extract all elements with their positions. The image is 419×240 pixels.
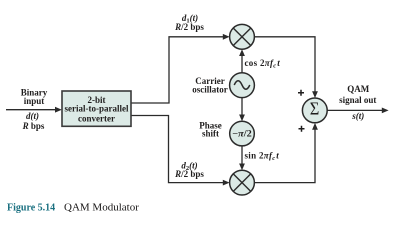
- svg-text:Figure 5.14QAM Modulator: Figure 5.14QAM Modulator: [7, 201, 139, 213]
- multiplier M2: [230, 170, 255, 195]
- svg-text:R bps: R bps: [22, 121, 45, 131]
- svg-text:input: input: [24, 96, 45, 106]
- svg-text:signal out: signal out: [339, 95, 376, 105]
- wire: QAM output arrow: [327, 108, 389, 114]
- svg-text:R/2 bps: R/2 bps: [174, 22, 204, 32]
- wire: phase shifter to multiplier M2 (sin branch): [239, 146, 245, 170]
- svg-text:sin 2πfct: sin 2πfct: [245, 150, 280, 162]
- wire: oscillator to M1 (cos branch): [239, 49, 245, 73]
- wire: Q-channel converter to multiplier M2: [132, 116, 230, 186]
- svg-text:shift: shift: [202, 128, 219, 138]
- svg-text:converter: converter: [78, 113, 115, 123]
- wire: oscillator to phase shifter: [239, 98, 245, 122]
- wire: M2 output to summer bottom: [254, 123, 318, 183]
- summer: [302, 98, 327, 123]
- svg-text:d(t): d(t): [26, 111, 39, 121]
- wire: M1 output to summer top: [254, 37, 318, 98]
- svg-text:QAM: QAM: [347, 84, 370, 94]
- label: plus upper: [298, 90, 304, 96]
- svg-text:s(t): s(t): [351, 111, 364, 121]
- phase shifter -pi/2: [230, 121, 255, 146]
- wire: I-channel converter to multiplier M1: [132, 34, 230, 103]
- carrier oscillator: [230, 73, 255, 98]
- svg-text:cos 2πfct: cos 2πfct: [245, 58, 281, 70]
- svg-text:R/2 bps: R/2 bps: [174, 169, 204, 179]
- label: plus lower: [299, 126, 305, 132]
- multiplier M1: [230, 24, 255, 49]
- svg-text:serial-to-parallel: serial-to-parallel: [65, 104, 129, 114]
- svg-text:−π/2: −π/2: [232, 129, 252, 139]
- wire: binary input arrow: [6, 107, 62, 113]
- converter box: [62, 91, 131, 126]
- svg-text:oscillator: oscillator: [192, 84, 228, 94]
- svg-text:Σ: Σ: [310, 98, 320, 118]
